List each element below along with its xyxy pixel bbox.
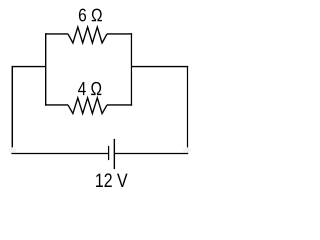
faint corner blob bottom-left bbox=[9, 148, 17, 153]
faint corner blob bottom-right bbox=[183, 148, 191, 153]
label 4 Ω for resistor R2 bbox=[78, 82, 101, 95]
wire: inner loop right vertical bbox=[130, 33, 132, 106]
wire: inner loop bottom-right segment bbox=[107, 104, 132, 106]
wire: inner loop left vertical bbox=[45, 33, 47, 106]
battery V1 negative terminal (short plate) bbox=[108, 146, 110, 160]
wire: outer right vertical bbox=[187, 66, 189, 147]
wire: bottom right segment from battery bbox=[115, 153, 188, 155]
resistor R2 4Ω zigzag bbox=[68, 98, 107, 114]
wire: inner loop bottom-left segment bbox=[45, 104, 68, 106]
resistor R1 6Ω zigzag bbox=[68, 27, 107, 43]
wire: left branch horizontal bbox=[12, 66, 46, 68]
label 6 Ω for resistor R1 bbox=[79, 9, 102, 22]
wire: outer left vertical bbox=[11, 66, 13, 147]
wire: inner loop top-left segment bbox=[45, 33, 68, 35]
battery V1 positive terminal (tall plate) bbox=[113, 139, 115, 169]
wire: right branch horizontal bbox=[131, 66, 188, 68]
wire: inner loop top-right segment bbox=[107, 33, 132, 35]
base serif of digit 1 in 12 V bbox=[96, 186, 101, 187]
label 12 V for battery V1 bbox=[96, 173, 127, 187]
wire: bottom left segment to battery bbox=[11, 153, 108, 155]
